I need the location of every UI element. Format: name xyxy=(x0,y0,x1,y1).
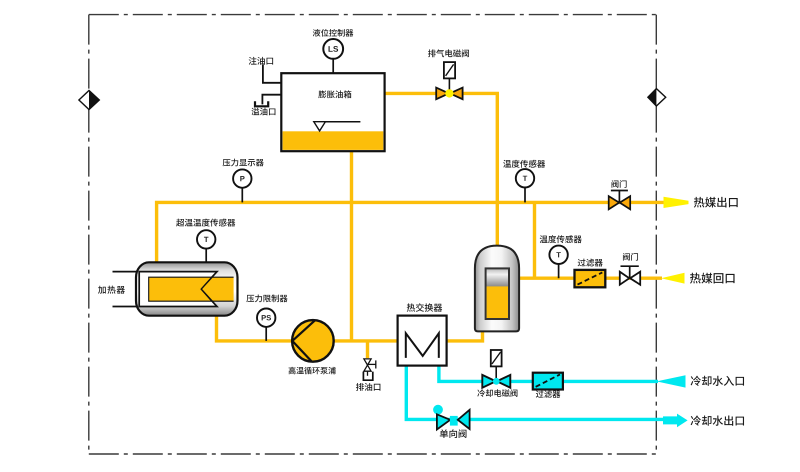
heater electric leads xyxy=(113,272,141,307)
wire: cooling water outlet run xyxy=(406,366,664,420)
wire: heat exchanger to separator bottom xyxy=(447,330,483,341)
hot supply outlet arrow xyxy=(664,197,689,208)
label 压力限制器 xyxy=(246,295,287,303)
label 过滤器 hot xyxy=(578,259,603,267)
temperature sensor T (supply) xyxy=(516,169,534,202)
wire: drain stub xyxy=(366,341,369,358)
label 热媒出口 xyxy=(694,197,738,208)
label 温度传感器 lower xyxy=(540,235,582,243)
exhaust solenoid valve xyxy=(436,62,462,99)
label 溢油口 xyxy=(251,108,275,116)
frame border top xyxy=(89,14,657,16)
frame border right xyxy=(655,15,657,454)
overflow port pipe xyxy=(255,95,281,107)
cooling water inlet arrow xyxy=(657,375,686,387)
fill port pipe xyxy=(263,65,281,83)
wire: supply-to-return tee vertical xyxy=(533,202,536,278)
label 温度传感器 top xyxy=(503,160,545,168)
label 阀门 top xyxy=(612,180,627,188)
wire: exhaust line tank to vertical drop xyxy=(385,93,498,247)
oil drain port valve xyxy=(363,359,375,380)
label 高温循环泵浦 xyxy=(289,367,336,375)
label 排油口 xyxy=(356,383,380,391)
frame border bottom xyxy=(89,453,657,455)
label 冷却水出口 xyxy=(691,415,744,425)
wire: main hot supply line xyxy=(157,202,664,265)
heater body xyxy=(136,262,238,315)
label 过滤器 cooling xyxy=(536,390,560,398)
level switch LS instrument xyxy=(323,39,343,73)
expansion oil tank body xyxy=(281,73,384,151)
label 注油口 xyxy=(249,57,273,65)
high temperature circulation pump xyxy=(292,320,334,362)
label 热媒回口 xyxy=(690,273,735,284)
cooling water outlet arrow xyxy=(663,414,688,428)
pressure limiter PS xyxy=(257,309,275,341)
frame border left xyxy=(88,15,90,454)
wire: tank drain vertical xyxy=(350,150,353,341)
temperature sensor T (return) xyxy=(549,246,567,279)
label 超温温度传感器 xyxy=(176,219,235,227)
label 排气电磁阀 xyxy=(428,49,469,57)
pressure display gauge P xyxy=(233,169,251,202)
label 压力显示器 xyxy=(223,159,264,167)
label 冷却电磁阀 xyxy=(477,389,517,397)
label 冷却水入口 xyxy=(691,376,744,386)
filter (hot return) xyxy=(575,270,606,287)
right border diamond marker xyxy=(648,89,666,106)
heat exchanger xyxy=(398,316,447,366)
over-temperature sensor T xyxy=(197,230,215,263)
label 单向阀 xyxy=(440,429,467,438)
cooling solenoid valve xyxy=(482,350,510,388)
wire: heater outlet to pump to heat exchanger xyxy=(217,316,398,341)
check valve (cooling outlet) xyxy=(433,405,470,430)
wire: hot return line xyxy=(519,277,662,280)
filter (cooling inlet) xyxy=(533,373,563,390)
label 热交换器 xyxy=(407,303,442,311)
label 阀门 lower xyxy=(623,253,638,261)
valve (hot supply) xyxy=(609,191,631,210)
left border diamond marker xyxy=(79,91,99,110)
label 液位控制器 xyxy=(313,29,354,37)
separator vessel body xyxy=(475,246,519,332)
valve (hot return) xyxy=(620,266,640,285)
label 加热器 xyxy=(98,286,125,294)
wire: cooling water inlet run xyxy=(439,366,658,382)
hot return inlet arrow xyxy=(661,273,685,284)
label 膨胀油箱 xyxy=(318,90,351,98)
